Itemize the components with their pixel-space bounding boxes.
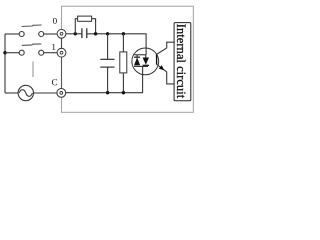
svg-text:C: C bbox=[51, 77, 57, 87]
phototransistor emitter wire with arrow to internal circuit bbox=[157, 64, 175, 84]
capacitor C1 bbox=[81, 28, 83, 38]
wire switch row B right bbox=[44, 52, 57, 54]
wire AC source left bbox=[5, 92, 18, 94]
switch S0 blade bbox=[22, 25, 42, 27]
capacitor C2 bbox=[107, 34, 109, 59]
node junction on rail row B bbox=[3, 51, 6, 54]
terminal C bbox=[57, 89, 66, 98]
wire AC source right to terminal C bbox=[34, 92, 57, 94]
terminal 1 bbox=[57, 48, 66, 57]
internal circuit box bbox=[174, 23, 191, 101]
LED pair bottom rail bbox=[134, 65, 148, 67]
resistor R1 bbox=[75, 19, 77, 34]
AC source G1 bbox=[18, 85, 33, 100]
svg-text:1: 1 bbox=[51, 42, 56, 52]
wire left supply rail bbox=[4, 34, 6, 93]
phototransistor collector wire to internal circuit bbox=[157, 42, 175, 54]
resistor R2 bbox=[122, 34, 124, 52]
LED pair top rail bbox=[135, 54, 147, 56]
wire switch row A right bbox=[44, 33, 57, 35]
node junction C2 top bbox=[106, 32, 109, 35]
node junction R2 bottom bbox=[122, 91, 125, 94]
node junction C2 bottom bbox=[106, 91, 109, 94]
optocoupler U1 body bbox=[132, 48, 159, 75]
wire RC filter to optocoupler feed bbox=[87, 34, 146, 55]
switch S1 blade bbox=[22, 44, 42, 46]
switch S1 contact circles bbox=[19, 50, 24, 55]
wire switch row B left bbox=[5, 52, 19, 54]
wire terminal 0 to terminal 1 bbox=[61, 38, 63, 48]
node junction R1C1 right bbox=[94, 32, 97, 35]
wire common rail bbox=[66, 66, 143, 92]
wire terminal 0 to RC filter bbox=[66, 33, 82, 35]
switch S0 contact circles bbox=[19, 32, 24, 37]
LED D1 (anode bottom, cathode bar top) bbox=[136, 55, 138, 57]
LED D2 (anode top, cathode bar bottom) bbox=[145, 55, 147, 58]
node junction R2 top bbox=[122, 32, 125, 35]
wire terminal 1 to terminal C bbox=[61, 57, 63, 88]
wire switch row A left bbox=[5, 33, 19, 35]
svg-text:0: 0 bbox=[53, 16, 58, 26]
svg-text:Internal circuit: Internal circuit bbox=[174, 24, 188, 99]
terminal 0 bbox=[57, 29, 66, 38]
module boundary frame bbox=[62, 6, 194, 112]
node junction R1C1 left bbox=[74, 32, 77, 35]
continuation mark between input rows bbox=[32, 62, 34, 78]
phototransistor Q1 body bar bbox=[156, 54, 158, 65]
